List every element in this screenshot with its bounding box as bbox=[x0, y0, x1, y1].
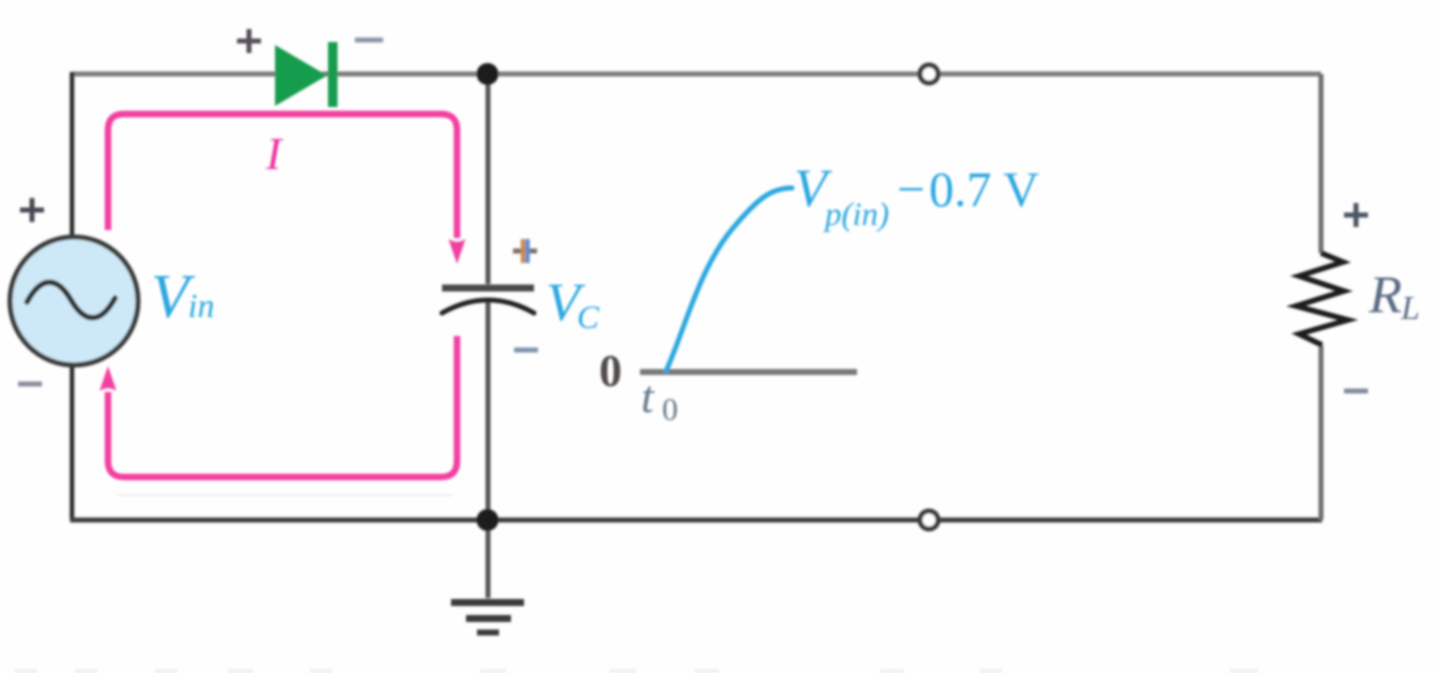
minus sign source bottom bbox=[18, 382, 42, 387]
svg-text:L: L bbox=[1400, 290, 1420, 327]
diode D1 bbox=[275, 42, 338, 107]
label RL bbox=[1368, 266, 1420, 327]
charging curve bbox=[666, 188, 792, 371]
svg-text:0: 0 bbox=[662, 391, 678, 427]
minus sign capacitor bbox=[514, 348, 538, 353]
plus sign capacitor bbox=[513, 239, 537, 263]
wire left vertical bbox=[70, 72, 75, 520]
current loop I (pink) bbox=[100, 114, 466, 477]
graph origin label 0 bbox=[599, 345, 622, 396]
wire top horizontal bbox=[72, 72, 1321, 77]
junction dot bottom bbox=[477, 509, 499, 531]
label Vin bbox=[151, 263, 214, 331]
resistor RL bbox=[1296, 253, 1348, 345]
graph label t0 bbox=[641, 371, 678, 427]
svg-text:−: − bbox=[897, 161, 925, 217]
junction dot top bbox=[477, 63, 499, 85]
svg-text:C: C bbox=[577, 300, 600, 336]
minus sign RL bbox=[1344, 389, 1368, 394]
svg-text:0.7 V: 0.7 V bbox=[929, 161, 1039, 217]
node terminal bottom (open circle) bbox=[920, 511, 938, 529]
faint caption remnants at bottom edge bbox=[15, 669, 1258, 673]
ground bbox=[451, 603, 524, 633]
label I bbox=[265, 128, 284, 179]
svg-text:0: 0 bbox=[599, 345, 622, 396]
plus sign source top bbox=[20, 198, 44, 222]
minus sign diode cathode bbox=[355, 38, 383, 43]
svg-text:p(in): p(in) bbox=[823, 197, 889, 233]
label VC bbox=[546, 272, 600, 336]
svg-text:in: in bbox=[188, 288, 214, 325]
faint artifact line bbox=[117, 494, 452, 496]
wire right vertical bbox=[1319, 74, 1324, 520]
svg-text:t: t bbox=[641, 371, 655, 422]
svg-text:R: R bbox=[1368, 266, 1402, 324]
node terminal top (open circle) bbox=[920, 65, 938, 83]
graph axis line bbox=[640, 369, 857, 375]
svg-text:I: I bbox=[265, 128, 284, 179]
plus sign diode anode bbox=[237, 29, 261, 53]
AC source Vin bbox=[10, 237, 138, 365]
label Vp(in) - 0.7 V bbox=[794, 158, 1039, 233]
wire capacitor branch bbox=[486, 74, 491, 598]
wire bottom horizontal bbox=[70, 518, 1322, 523]
plus sign RL bbox=[1344, 203, 1368, 227]
capacitor C bbox=[442, 285, 534, 314]
